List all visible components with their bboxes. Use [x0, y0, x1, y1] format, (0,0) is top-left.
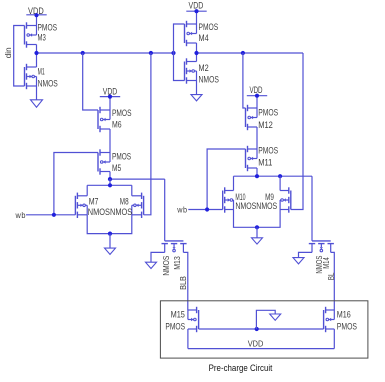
- svg-text:M11: M11: [258, 157, 272, 167]
- junction dot wb to M5 gate: [52, 213, 56, 217]
- junction dot VDD3: [108, 95, 112, 99]
- transistor M12 PMOS: [245, 108, 247, 127]
- svg-text:Pre-charge Circuit: Pre-charge Circuit: [209, 363, 273, 373]
- transistor M10 NMOS: [222, 191, 224, 210]
- svg-text:M16: M16: [337, 310, 351, 320]
- wire M10 drain stub: [233, 176, 235, 190]
- svg-text:PMOS: PMOS: [258, 146, 278, 156]
- svg-text:M5: M5: [112, 163, 121, 173]
- transistor M9 NMOS (mirrored): [290, 191, 292, 210]
- transistor M6 PMOS: [97, 110, 99, 129]
- svg-text:VDD: VDD: [248, 340, 264, 349]
- wire right latch source to ground: [256, 227, 258, 238]
- node inverter2 gate bus: [174, 24, 185, 81]
- wire M5 drain to latch node: [109, 172, 111, 180]
- svg-text:PMOS: PMOS: [165, 321, 185, 331]
- svg-text:BLB: BLB: [179, 276, 188, 290]
- svg-text:wb: wb: [176, 206, 187, 215]
- svg-text:VDD: VDD: [189, 0, 204, 10]
- wire VDD to M4 source: [196, 11, 198, 24]
- wire M1 source to ground: [36, 86, 38, 100]
- svg-text:M12: M12: [258, 120, 273, 130]
- junction dot VDD4: [255, 94, 259, 98]
- svg-text:M8: M8: [120, 196, 129, 206]
- svg-text:M15: M15: [171, 310, 185, 320]
- transistor M5 PMOS: [97, 153, 99, 172]
- wire M2 source to ground: [196, 81, 198, 95]
- wire latch source to ground: [109, 234, 111, 249]
- transistor M13 NMOS (rotated): [165, 240, 184, 242]
- svg-text:M1: M1: [38, 67, 45, 77]
- svg-text:PMOS: PMOS: [258, 108, 278, 118]
- svg-text:PMOS: PMOS: [38, 22, 58, 32]
- svg-text:NMOS: NMOS: [110, 207, 132, 217]
- ground (inverter 1): [31, 100, 43, 107]
- wire M3 drain to node1: [36, 45, 38, 54]
- wire M4 drain to node2: [196, 43, 198, 53]
- junction dot VDD2: [194, 9, 198, 13]
- junction dot VDD1: [34, 13, 38, 17]
- wire M7 source: [87, 215, 132, 234]
- power VDD (inverter 2): [186, 10, 206, 12]
- svg-text:PMOS: PMOS: [199, 22, 219, 32]
- junction dot latch node upper: [108, 177, 112, 181]
- wire latch node down to M13 gate: [164, 179, 166, 241]
- wire M6 gate from node1: [83, 53, 98, 110]
- svg-text:PMOS: PMOS: [337, 321, 357, 331]
- ground (pre-charge enable): [270, 314, 281, 320]
- wire latch node to M13: [110, 178, 165, 180]
- svg-text:M4: M4: [199, 33, 209, 43]
- wire M8 drain stub: [131, 185, 133, 196]
- wire M14 source to BL: [331, 252, 335, 310]
- wire M14 drain to ground: [299, 252, 313, 257]
- wire M16 source to VDD rail: [333, 329, 335, 349]
- junction dot enable node: [255, 327, 259, 331]
- wire M11 drain to right latch bus: [256, 168, 258, 176]
- transistor M8 NMOS (mirrored): [143, 196, 145, 215]
- power VDD (inverter 1): [26, 14, 46, 16]
- wire M10/M9 sources: [234, 210, 281, 228]
- transistor M1 NMOS: [24, 67, 26, 86]
- wire M9 gate from node2: [291, 53, 303, 210]
- svg-text:M14: M14: [322, 257, 331, 269]
- svg-text:M6: M6: [112, 119, 122, 129]
- svg-text:NMOS: NMOS: [235, 201, 256, 211]
- svg-text:NMOS: NMOS: [88, 207, 110, 217]
- pre-charge circuit box: [160, 301, 368, 358]
- svg-text:NMOS: NMOS: [38, 79, 58, 89]
- wire VDD to M3 source: [36, 15, 38, 26]
- transistor M3 PMOS: [24, 26, 26, 45]
- junction dot node1 to M8 gate: [149, 51, 153, 55]
- svg-text:NMOS: NMOS: [199, 74, 219, 84]
- ground (M7/M8 latch): [105, 248, 116, 254]
- transistor M7 NMOS: [74, 196, 76, 215]
- ground (M10/M9 latch): [252, 238, 263, 244]
- node din input bus: [14, 26, 25, 87]
- wire M12 drain to M11 source: [256, 127, 258, 149]
- svg-text:PMOS: PMOS: [112, 152, 131, 162]
- svg-text:M2: M2: [199, 63, 209, 73]
- power VDD rail (pre-charge): [188, 348, 334, 350]
- wire M12 gate from node2: [243, 53, 246, 108]
- svg-text:NMOS: NMOS: [162, 255, 171, 275]
- transistor M16 PMOS: [323, 310, 325, 329]
- junction dot latch source bus: [108, 232, 112, 236]
- wire M13 source to BLB: [183, 252, 187, 310]
- svg-text:M13: M13: [173, 256, 182, 270]
- transistor M14 NMOS (rotated): [312, 240, 331, 242]
- wire wb input to M10 gate: [188, 209, 222, 211]
- wire M13 drain to ground: [151, 252, 165, 262]
- wire M9 drain stub: [279, 176, 281, 190]
- svg-text:M3: M3: [38, 33, 46, 43]
- wire M6 drain to M5 source: [109, 129, 111, 153]
- ground (M13): [146, 262, 157, 268]
- wire pre-charge enable gates: [199, 328, 324, 330]
- ground (inverter 2): [191, 95, 202, 101]
- wire VDD to M6 source: [109, 97, 111, 110]
- junction dot node1 at inverter2 gate bus: [171, 51, 175, 55]
- wire right latch drain bus: [234, 175, 313, 177]
- junction dot right latch at M9 drain: [278, 174, 282, 178]
- power VDD (M6): [100, 96, 120, 98]
- wire wb input to M7 gate: [26, 214, 75, 216]
- junction dot node2 at M4/M2 drains: [194, 51, 198, 55]
- wire M1 drain to node1: [36, 53, 38, 67]
- junction dot node1 to M6 gate: [81, 51, 85, 55]
- svg-text:wb: wb: [15, 211, 26, 220]
- wire M7/M8 drain bus: [87, 184, 132, 186]
- wire M15 source to VDD rail: [187, 329, 189, 349]
- junction dot wb2 to M11 gate: [205, 207, 209, 211]
- transistor M4 PMOS: [184, 24, 186, 43]
- svg-text:PMOS: PMOS: [112, 108, 132, 118]
- wire VDD to M12 source: [256, 96, 258, 108]
- transistor M11 PMOS: [245, 149, 247, 168]
- junction dot right latch source bus: [255, 225, 259, 229]
- svg-text:M7: M7: [89, 196, 99, 206]
- svg-text:VDD: VDD: [249, 85, 262, 95]
- svg-text:NMOS: NMOS: [256, 201, 277, 211]
- wire M5 gate from wb: [54, 153, 98, 215]
- ground (M14): [293, 258, 304, 264]
- wire node1 horizontal: [37, 52, 174, 54]
- svg-text:BL: BL: [327, 272, 336, 280]
- wire enable node to ground: [256, 310, 275, 329]
- svg-text:din: din: [4, 47, 13, 58]
- junction dot right latch at M11 drain: [255, 174, 259, 178]
- wire M8 gate from node1: [144, 53, 151, 215]
- junction dot node2 to M12 gate: [241, 51, 245, 55]
- wire right latch down to M14 gate: [311, 176, 313, 241]
- junction dot latch drain bus: [108, 183, 112, 187]
- wire latch node to drain bus: [109, 179, 111, 185]
- wire M7 drain stub: [86, 185, 88, 196]
- transistor M2 NMOS: [184, 62, 186, 81]
- transistor M15 PMOS (mirrored): [198, 310, 200, 329]
- wire node2 horizontal: [197, 52, 304, 54]
- junction dot node1 at M3/M1 drains: [34, 51, 38, 55]
- wire M2 drain to node2: [196, 53, 198, 62]
- wire M11 gate from wb: [207, 149, 245, 210]
- power VDD (M12): [247, 95, 267, 97]
